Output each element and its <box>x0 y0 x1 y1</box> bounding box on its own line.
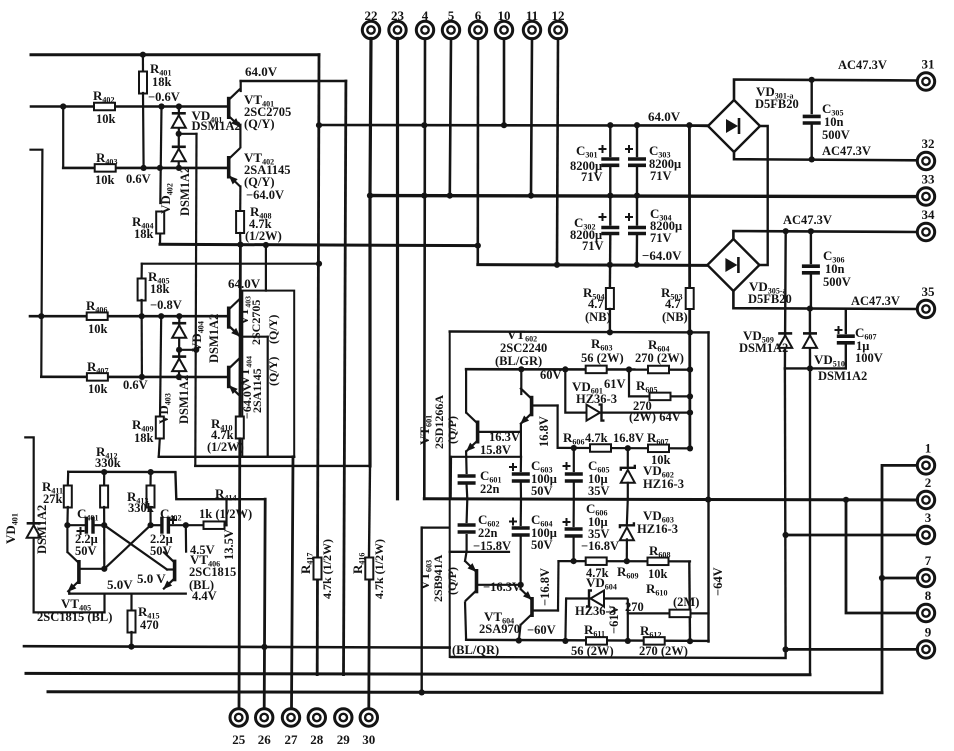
wire drop to bus <box>450 457 452 499</box>
node VT602 collector <box>518 366 524 372</box>
wire VD602 bottom <box>627 483 629 499</box>
node x161 top <box>158 313 164 319</box>
wire C305 bottom lead <box>811 125 813 159</box>
node 0V bus junction <box>421 193 427 199</box>
node +64V rail junction <box>607 122 613 128</box>
svg-text:9: 9 <box>925 624 932 639</box>
resistor R407 <box>87 373 108 381</box>
resistor R603 <box>586 366 607 374</box>
wire output bus y245 <box>160 244 478 245</box>
zener VD604 <box>586 591 604 607</box>
transistor VT405 <box>67 552 79 592</box>
plus C605 <box>563 462 571 470</box>
resistor R605 <box>650 393 671 401</box>
terminal 29 <box>335 709 352 726</box>
wire VT601 collector riser <box>465 369 467 412</box>
wire block2 bottom row <box>159 456 295 458</box>
svg-text:29: 29 <box>337 732 351 747</box>
wire terminal 6 down <box>476 39 479 246</box>
wire VD401 to emitter node <box>34 611 105 613</box>
terminal 11 <box>523 21 540 38</box>
node VD510 bottom <box>807 365 813 371</box>
terminal 9 <box>917 641 934 658</box>
node +64V rail junction <box>421 122 427 128</box>
wire C303-C304 link <box>636 167 638 225</box>
svg-text:4.7k: 4.7k <box>585 431 608 445</box>
node VD602 top <box>625 445 631 451</box>
svg-text:16.8V: 16.8V <box>613 431 644 445</box>
wire VT405 collector riser <box>66 525 68 552</box>
wire -15.8V row <box>450 551 509 553</box>
resistor R607 <box>648 445 669 453</box>
wire VT602 base lead <box>532 404 558 406</box>
svg-text:16.3V: 16.3V <box>489 430 520 444</box>
wire R611 R612 row <box>466 640 708 641</box>
svg-text:−16.3V: −16.3V <box>483 580 521 594</box>
wire C305 top lead <box>811 80 813 113</box>
svg-text:330k: 330k <box>95 456 121 470</box>
wire R414 riser <box>225 499 227 525</box>
node VD509 column top <box>783 228 789 234</box>
terminal 33 <box>917 188 934 205</box>
node R404 crossing <box>157 165 163 171</box>
wire R412 to VT405 base <box>103 525 105 569</box>
wire R412 lead <box>103 472 105 486</box>
svg-text:16.8V: 16.8V <box>537 416 551 447</box>
svg-text:(2W) 64V: (2W) 64V <box>629 410 681 424</box>
resistor R408 <box>236 211 244 233</box>
node tap2 joins x196 <box>193 347 199 353</box>
wire VD509 column <box>784 231 787 368</box>
resistor R417 <box>314 558 322 580</box>
diode VD401 lower-left <box>27 523 41 538</box>
svg-text:2SD1266A: 2SD1266A <box>432 395 446 449</box>
node VD604 drop <box>562 638 568 644</box>
node -61V drop <box>625 638 631 644</box>
terminal 22 <box>362 21 379 38</box>
node VD601 branch <box>562 366 568 372</box>
svg-text:25: 25 <box>232 732 246 747</box>
wire C604 bottom column <box>519 537 521 589</box>
node left drop 2 <box>38 313 44 319</box>
wire mid node block1 <box>239 125 241 148</box>
wire top rail block1 <box>31 53 319 56</box>
transistor VT402 <box>229 148 241 187</box>
node +64V rail junction <box>316 122 322 128</box>
wire diode stack spine <box>178 107 180 168</box>
svg-text:50V: 50V <box>75 544 97 558</box>
svg-text:2: 2 <box>925 475 932 490</box>
svg-text:22n: 22n <box>480 482 500 496</box>
node R415 bottom <box>128 644 134 650</box>
node R405 bottom <box>139 313 145 319</box>
wire VT402 emitter lead <box>239 187 241 213</box>
wire y457 link <box>451 456 521 458</box>
node 0V bus junction <box>447 193 453 199</box>
wire VT401 collector lead <box>240 81 242 91</box>
node left drop <box>60 103 66 109</box>
plus C303 <box>625 145 633 153</box>
wire stub into block2 box <box>265 246 267 291</box>
svg-text:30: 30 <box>362 732 375 747</box>
svg-text:35: 35 <box>922 284 936 299</box>
wire y466 row <box>195 465 370 467</box>
wire emitter column <box>520 430 522 457</box>
wire C601 bottom <box>466 485 469 499</box>
svg-text:−0.6V: −0.6V <box>148 90 180 104</box>
svg-text:(NB): (NB) <box>585 310 611 324</box>
wire output drop block2 <box>267 337 269 457</box>
wire C306 bottom lead <box>810 275 812 309</box>
svg-text:100V: 100V <box>855 351 883 365</box>
wire terminal 5 down <box>450 39 451 196</box>
wire C602 top lead <box>466 499 469 522</box>
svg-text:56 (2W): 56 (2W) <box>581 351 624 365</box>
node R401 top <box>140 52 146 58</box>
wire VT405 base lead <box>79 568 104 570</box>
wire VT601 base lead <box>479 431 521 433</box>
wire C607 top lead <box>845 309 847 333</box>
svg-text:AC47.3V: AC47.3V <box>838 58 887 72</box>
resistor R415 <box>128 611 136 633</box>
svg-text:35V: 35V <box>588 484 610 498</box>
svg-text:−16.8V: −16.8V <box>581 539 619 553</box>
terminal 27 <box>282 709 299 726</box>
resistor R608 <box>648 558 669 566</box>
wire C606 bottom <box>572 538 574 561</box>
wire C605 top lead <box>573 448 575 471</box>
node diode stack top <box>176 103 182 109</box>
wire x708 vertical <box>707 332 709 641</box>
wire C602 bottom to box edge <box>450 534 467 552</box>
svg-text:−64.0V: −64.0V <box>240 382 254 419</box>
node VT604 collector <box>516 637 522 643</box>
resistor R406 <box>87 312 108 320</box>
transistor VT603 <box>465 561 477 601</box>
svg-text:DSM1A2: DSM1A2 <box>178 167 192 216</box>
svg-text:50V: 50V <box>531 484 553 498</box>
plus C304 <box>625 213 633 221</box>
wire VT602 emitter drop <box>520 425 522 431</box>
svg-text:(1/2W): (1/2W) <box>207 440 244 454</box>
wire R416 string top <box>369 466 370 556</box>
svg-text:18k: 18k <box>134 227 154 241</box>
svg-text:−0.8V: −0.8V <box>150 298 182 312</box>
wire R411 top lead <box>67 472 70 486</box>
svg-text:4.4V: 4.4V <box>192 589 217 603</box>
resistor R612 <box>644 637 665 645</box>
terminal 34 <box>917 223 934 240</box>
wire -64.0V rail <box>478 263 707 267</box>
wire VD604 row <box>566 597 628 599</box>
svg-text:2SC2705: 2SC2705 <box>249 300 263 345</box>
svg-text:DSM1A2: DSM1A2 <box>739 341 788 355</box>
svg-text:AC47.3V: AC47.3V <box>783 213 832 227</box>
svg-text:500V: 500V <box>822 128 850 142</box>
wire VT603 base lead <box>478 584 521 586</box>
resistor R405 <box>138 279 146 301</box>
wire mid tap2 <box>179 349 196 351</box>
resistor R412 <box>100 486 108 508</box>
node VD603 bottom <box>624 558 630 564</box>
plus C302 <box>599 213 607 221</box>
svg-text:22n: 22n <box>478 526 498 540</box>
capacitor C402 <box>162 517 169 534</box>
svg-text:HZ16-3: HZ16-3 <box>637 522 678 536</box>
svg-text:71V: 71V <box>650 169 672 183</box>
svg-text:HZ16-3: HZ16-3 <box>643 477 684 491</box>
terminal 26 <box>256 709 273 726</box>
wire VT601 emitter drop <box>465 452 468 474</box>
svg-text:64.0V: 64.0V <box>245 64 278 79</box>
capacitor C302 <box>601 228 619 234</box>
wire C304 bottom <box>636 235 639 265</box>
node -64V rail junction <box>634 262 640 268</box>
bridge rectifier VD305-a <box>707 239 759 291</box>
capacitor C603 <box>512 474 530 481</box>
wire base bias drop <box>556 406 558 448</box>
terminal 2 <box>917 491 934 508</box>
wire VD604 right drop <box>627 599 629 641</box>
svg-text:18k: 18k <box>134 431 154 445</box>
svg-text:27: 27 <box>285 732 299 747</box>
node C605 top <box>571 445 577 451</box>
wire base1 row <box>31 105 229 108</box>
svg-text:AC47.3V: AC47.3V <box>851 294 900 308</box>
svg-text:0.6V: 0.6V <box>126 172 151 186</box>
wire terminal 4 down <box>423 39 426 499</box>
capacitor C607 <box>837 336 855 343</box>
svg-text:HZ36-3: HZ36-3 <box>576 392 617 406</box>
node VT406 collector <box>183 522 189 528</box>
wire VD510 column <box>809 309 811 369</box>
node C401 right <box>101 522 107 528</box>
svg-text:(BL/GR): (BL/GR) <box>495 354 542 368</box>
wire corner t6 <box>476 246 479 265</box>
terminal 31 <box>917 73 934 90</box>
node R605 branch <box>626 366 632 372</box>
svg-text:56 (2W): 56 (2W) <box>571 644 614 658</box>
svg-text:64.0V: 64.0V <box>228 276 261 291</box>
svg-text:−64V: −64V <box>711 567 725 596</box>
diode VD403 <box>172 357 186 372</box>
wire terminal 10 down <box>503 39 506 126</box>
plus C604 <box>509 518 517 526</box>
terminal 6 <box>469 21 486 38</box>
svg-text:60V: 60V <box>540 368 562 382</box>
svg-text:2SB941A: 2SB941A <box>431 554 445 602</box>
wire VD604 left drop <box>564 599 567 641</box>
capacitor C602 <box>458 525 476 532</box>
terminal 1 <box>917 457 934 474</box>
node C306 top <box>808 228 814 234</box>
resistor R413 <box>147 486 155 508</box>
wire R415 top lead <box>130 594 132 611</box>
svg-text:(1/2W): (1/2W) <box>245 229 282 243</box>
wire to terminal 30 <box>367 581 370 709</box>
svg-text:50V: 50V <box>531 538 553 552</box>
svg-text:18k: 18k <box>150 282 170 296</box>
svg-text:10k: 10k <box>88 322 108 336</box>
resistor R610 <box>670 610 691 618</box>
transistor VT604 <box>521 589 533 625</box>
plus C606 <box>563 518 571 526</box>
wire bottom bus D <box>48 692 882 693</box>
terminal 5 <box>442 21 459 38</box>
wire R405 top feed <box>142 263 319 265</box>
wire R610 row <box>628 612 709 614</box>
wire terminal22 continue <box>368 196 371 466</box>
wire C604 top lead <box>520 499 522 525</box>
svg-text:−60V: −60V <box>527 623 556 637</box>
svg-text:−61V: −61V <box>607 605 621 634</box>
transistor VT601 <box>466 413 478 452</box>
svg-text:−64.0V: −64.0V <box>642 248 682 263</box>
node R408 bottom <box>237 242 243 248</box>
terminal 10 <box>495 21 512 38</box>
wire riser to emitter bus <box>103 594 105 613</box>
wire C606 top lead <box>572 499 574 526</box>
wire box3 top / R504 bottom row <box>450 330 709 333</box>
node x143 bottom <box>141 165 147 171</box>
svg-text:(NB): (NB) <box>662 310 688 324</box>
wire 64V collector rail <box>241 80 346 83</box>
terminal 3 <box>917 526 934 543</box>
node x690 bottom <box>687 638 693 644</box>
svg-text:DSM1A2: DSM1A2 <box>35 505 49 554</box>
wire x690 vertical upper <box>688 125 691 448</box>
node +64V rail junction <box>634 122 640 128</box>
wire C301 top lead <box>609 125 611 156</box>
transistor VT406 <box>163 552 175 590</box>
node R404 string top <box>158 103 164 109</box>
svg-text:270 (2W): 270 (2W) <box>635 351 684 365</box>
wire long vertical x319 to bottom <box>317 55 319 675</box>
capacitor C401 <box>86 517 93 534</box>
wire bottom bus A <box>24 646 450 647</box>
wire C603 top lead <box>520 457 522 471</box>
svg-text:270: 270 <box>625 600 644 614</box>
wire VD603 top lead <box>626 499 629 524</box>
svg-text:31: 31 <box>922 57 935 72</box>
resistor R404 <box>156 212 164 234</box>
resistor R609 <box>586 557 607 565</box>
node R405 wire joins x319 <box>316 261 322 267</box>
wire terminal3 link <box>786 534 918 537</box>
wire VT404 emitter lead <box>239 396 241 417</box>
wire drop to VT604 base <box>557 561 560 610</box>
wire +64.0V rail <box>319 124 708 127</box>
svg-text:(2M): (2M) <box>673 595 699 609</box>
wire VT403 collector lead <box>239 291 241 301</box>
capacitor C305 <box>803 116 821 123</box>
resistor R611 <box>586 637 607 645</box>
svg-text:10k: 10k <box>88 382 108 396</box>
wire VD401d column <box>24 437 34 612</box>
wire drop to R403 row <box>62 107 64 168</box>
node -64V rail junction <box>554 262 560 268</box>
resistor R409 <box>156 417 164 439</box>
wire bottom bus C <box>26 673 810 674</box>
transistor VT602 <box>520 388 532 425</box>
svg-text:0.6V: 0.6V <box>123 378 148 392</box>
svg-text:2SC1815: 2SC1815 <box>189 565 236 579</box>
svg-text:(BL/QR): (BL/QR) <box>452 643 499 657</box>
node VT405 base <box>101 566 107 572</box>
svg-text:26: 26 <box>258 732 272 747</box>
wire R605 branch <box>629 370 690 397</box>
svg-text:18k: 18k <box>152 75 172 89</box>
svg-text:4.7: 4.7 <box>588 297 604 311</box>
node terminal9 tap <box>783 646 789 652</box>
node R413 top <box>148 469 154 475</box>
plus C603 <box>509 463 517 471</box>
terminal 25 <box>230 709 247 726</box>
wire bridge1 bottom to terminal 32 <box>734 152 918 160</box>
wire VT406 collector riser <box>185 525 188 551</box>
svg-text:D5FB20: D5FB20 <box>755 97 799 111</box>
wire bridge1 top to terminal 31 <box>734 80 918 101</box>
wire to C401 <box>67 524 85 526</box>
svg-text:8: 8 <box>925 588 932 603</box>
resistor R504 <box>606 288 614 309</box>
node 0V bus junction <box>528 193 534 199</box>
resistor R606 <box>590 444 611 452</box>
wire x785 long vertical <box>784 368 787 649</box>
node C306 bottom VD510 top <box>807 306 813 312</box>
terminal 30 <box>360 709 377 726</box>
node C402 left <box>148 522 154 528</box>
wire C607 bottom lead <box>845 345 847 369</box>
wire C303 top lead <box>636 125 638 156</box>
wire base row VT404 <box>41 375 228 378</box>
wire R404 bottom lead <box>159 234 161 244</box>
terminal 23 <box>389 21 406 38</box>
svg-text:(Q/P): (Q/P) <box>445 567 459 595</box>
node VT405 collector <box>64 522 70 528</box>
box around VT601-VT604 <box>449 332 451 658</box>
node VD601 x690 <box>687 410 693 416</box>
node diode stack2 bottom <box>176 374 182 380</box>
wire C301-C302 link <box>609 167 611 225</box>
wire VD601 branch <box>565 369 690 412</box>
svg-text:500V: 500V <box>823 275 851 289</box>
wire box3 left edge <box>449 332 451 658</box>
wire R405 bottom string <box>141 300 143 377</box>
wire x690 vertical lower <box>688 562 691 642</box>
wire R504 bottom <box>609 309 611 332</box>
zener VD603 <box>620 522 634 540</box>
wire x421 drop <box>421 528 423 693</box>
svg-text:−16.8V: −16.8V <box>538 568 552 606</box>
svg-text:7: 7 <box>925 553 932 568</box>
capacitor C601 <box>458 476 476 483</box>
node +64V rail junction <box>501 122 507 128</box>
node rail3 x690 <box>687 367 693 373</box>
wire to terminal 27 <box>292 457 294 709</box>
node diode stack bottom <box>176 165 182 171</box>
node R504 joins <box>607 329 613 335</box>
capacitor C604 <box>512 528 530 535</box>
wire long x196 vertical <box>195 134 196 466</box>
svg-text:AC47.3V: AC47.3V <box>822 144 871 158</box>
svg-text:28: 28 <box>310 732 324 747</box>
wire R401 top lead <box>142 55 144 72</box>
wire 0V bus to terminal 33 <box>370 196 918 197</box>
svg-text:15.8V: 15.8V <box>480 443 511 457</box>
svg-text:34: 34 <box>922 207 936 222</box>
node 0V bus junction <box>367 193 373 199</box>
